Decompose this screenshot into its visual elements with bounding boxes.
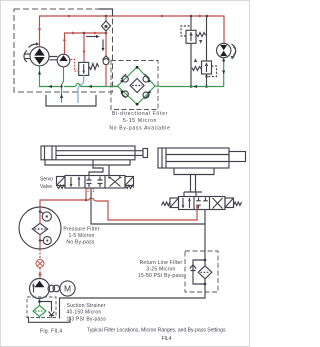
- coupling: [48, 285, 60, 292]
- strainer suction line: [38, 299, 41, 307]
- svg-text:Suction Strainer: Suction Strainer: [67, 303, 106, 309]
- green return from motor: [160, 58, 225, 88]
- reservoir T2: [29, 317, 71, 323]
- cylinder CYL2: [158, 148, 246, 168]
- pump P2 suction with jog and tank pickup: [60, 67, 64, 103]
- CYL1 mount / port piping: [45, 160, 130, 176]
- svg-text:Valve: Valve: [40, 184, 52, 190]
- V1 right box crossed arrows: [108, 176, 122, 187]
- cylinder CYL1: [41, 146, 148, 160]
- svg-text:40-150 Micron: 40-150 Micron: [67, 310, 102, 316]
- relief valve RV1: [79, 62, 99, 75]
- svg-text:5-15 Micron: 5-15 Micron: [123, 118, 157, 124]
- F2 line through: [39, 207, 42, 249]
- servo valve V1 body: [65, 176, 125, 189]
- RV1 pilot line (dashed red): [71, 60, 79, 72]
- svg-text:15-50 PSI By-pass: 15-50 PSI By-pass: [138, 273, 184, 279]
- V1 left box arrows: [70, 176, 81, 187]
- V2 right solenoid: [225, 198, 242, 208]
- tandem shaft: [49, 57, 57, 60]
- F3 label: [67, 303, 107, 322]
- V1 pilot drain dashes (red): [88, 188, 94, 192]
- power unit box corner solid: [99, 9, 113, 17]
- F1 bridge arrows: [120, 80, 151, 94]
- bi-directional filter F1 enclosure: [111, 61, 158, 110]
- V2 P port mark (red): [196, 205, 198, 211]
- red pressure manifold top: [38, 15, 224, 48]
- strainer by-pass check: [40, 302, 55, 318]
- V1 right solenoid: [125, 177, 134, 189]
- F1 filter element: [130, 79, 144, 93]
- power unit enclosure (dashed): [14, 9, 113, 92]
- reservoir T1: [46, 95, 96, 106]
- F2 element: [32, 223, 47, 234]
- svg-text:Servo: Servo: [40, 177, 53, 183]
- F1 label: [109, 111, 170, 132]
- servo valve V1 label: [40, 177, 53, 191]
- pump P3 feed line: [38, 271, 42, 279]
- captions: [40, 328, 226, 343]
- suction strainer F3 enclosure: [27, 297, 56, 318]
- red branch to right valve: [86, 198, 197, 220]
- red branch line y33: [63, 32, 107, 55]
- strainer element (green): [33, 306, 46, 317]
- strainer outlet: [39, 317, 41, 319]
- svg-text:3-25 Micron: 3-25 Micron: [146, 267, 175, 273]
- V2 left box arrows: [182, 198, 191, 208]
- pump P1 bidirectional: [30, 47, 49, 66]
- counterbalance valve RV2 upper: [181, 16, 206, 88]
- svg-text:1-5 Micron: 1-5 Micron: [68, 233, 94, 239]
- hydraulic motor M1: [217, 43, 231, 57]
- F2 indicator top: [40, 212, 51, 222]
- pump P1 shaft and rotation arrow: [24, 42, 39, 62]
- F4 label: [138, 260, 184, 279]
- return line filter F4 enclosure: [185, 251, 218, 292]
- F2 label: [63, 226, 99, 245]
- V1 left solenoid: [57, 177, 66, 189]
- electric motor M: [60, 281, 75, 296]
- F2 indicator bottom: [40, 237, 51, 245]
- flow annotation arrows near check valve: [86, 35, 105, 51]
- F4 by-pass check: [190, 260, 205, 284]
- F1 bridge diamond: [111, 66, 160, 106]
- pressure filter F2 shell: [19, 207, 61, 249]
- svg-text:Typical Filter Locations, Micr: Typical Filter Locations, Micron Ranges,…: [87, 328, 226, 334]
- svg-text:1-3 PSI By-pass: 1-3 PSI By-pass: [67, 316, 107, 322]
- svg-text:M: M: [64, 284, 71, 294]
- test point symbol (red): [36, 249, 44, 273]
- V2 left solenoid: [162, 198, 179, 208]
- V1 center box blocked ports: [87, 177, 103, 188]
- CYL2 mount / port piping: [174, 168, 214, 197]
- directional valve V2 body: [179, 197, 226, 210]
- check valve CV2 anti-cavitation: [103, 33, 110, 87]
- F4 outlet to tank: [60, 279, 206, 319]
- F4 element: [198, 266, 212, 279]
- servo T port return (black): [91, 188, 205, 251]
- motor M1 shaft arcs: [231, 44, 236, 59]
- V2 right box crossed arrows: [213, 198, 223, 209]
- pump P2: [57, 54, 70, 67]
- svg-text:Bi-directional Filter: Bi-directional Filter: [112, 111, 168, 117]
- svg-text:FIL4: FIL4: [161, 336, 171, 342]
- pump P3 (bottom power unit): [30, 279, 50, 299]
- check valve CV1: [102, 16, 111, 33]
- servo P port riser (red): [85, 188, 88, 201]
- svg-text:No By-pass: No By-pass: [66, 239, 95, 245]
- svg-text:Fig. FIL4: Fig. FIL4: [40, 329, 62, 335]
- green suction manifold: [38, 66, 119, 88]
- F4 main line: [204, 251, 207, 285]
- counterbalance valve RV3 lower: [192, 16, 217, 88]
- F1 check valves: [121, 74, 150, 99]
- svg-text:No By-pass Available: No By-pass Available: [109, 125, 170, 131]
- svg-text:Pressure Filter: Pressure Filter: [63, 226, 99, 232]
- V2 center box blocked ports: [196, 198, 208, 209]
- RV1 drain (blue): [78, 75, 84, 103]
- pressure line from filter to servo (red): [40, 200, 86, 207]
- relief valve RV1 feed: [83, 33, 86, 62]
- svg-text:Return Line Filter: Return Line Filter: [140, 260, 183, 266]
